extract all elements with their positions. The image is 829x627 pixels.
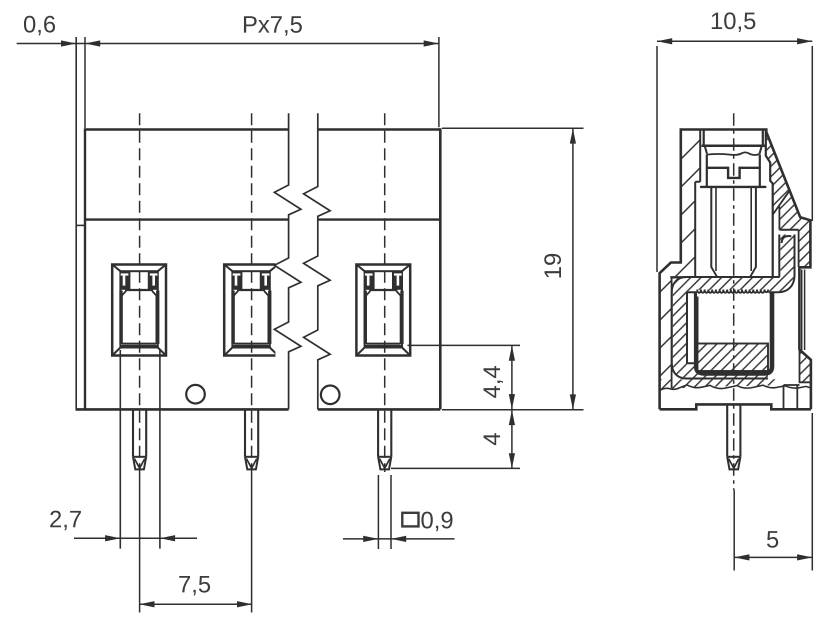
body bottom edge	[76, 408, 441, 411]
hatched left wall lower	[660, 263, 672, 390]
svg-text:4,4: 4,4	[479, 365, 506, 398]
center line terminal 1	[139, 113, 141, 470]
white pocket channel	[773, 206, 779, 230]
break line right	[304, 113, 331, 409]
interior wall lines	[695, 130, 700, 277]
pocket cap line	[779, 229, 798, 231]
ext 7,5 lines (pin centers)	[140, 470, 252, 613]
mounting hole circle 2	[321, 386, 340, 405]
side outer profile	[660, 128, 811, 409]
arrow 10,5 right	[797, 38, 812, 44]
screw slot line	[707, 167, 760, 169]
screw neck wavy line	[707, 152, 760, 155]
hatched snap barb	[800, 350, 812, 382]
screw head mid section	[707, 154, 760, 186]
hatched strip under clamp cage	[660, 379, 776, 390]
svg-text:4: 4	[479, 432, 506, 445]
arrow 4 bottom	[509, 453, 515, 468]
arrow 7,5 right	[237, 601, 252, 607]
dim 19 line	[572, 128, 574, 409]
arrow 5 left	[734, 554, 749, 560]
ext 19 top	[442, 127, 584, 129]
side view housing hatched left wall upper	[660, 113, 811, 490]
cavity right wall lines	[766, 130, 773, 293]
ext line x=85 top	[84, 37, 86, 128]
ext 0,9 lines	[378, 475, 391, 549]
body right edge	[439, 128, 442, 409]
hatched right wall wedge	[766, 130, 811, 267]
front view body outline	[76, 37, 441, 549]
dim 7,5 line	[139, 603, 252, 605]
arrow 0,6 left (tip x=76.2, points right)	[61, 40, 76, 46]
pocket walls	[779, 207, 798, 268]
wire cavity thick outline	[696, 292, 772, 374]
clamp foot hatched block	[698, 344, 769, 372]
dim 5 line	[734, 556, 812, 558]
terminal window 2	[224, 265, 278, 356]
side solder pin	[727, 405, 740, 469]
arrow 7,5 left	[139, 601, 154, 607]
arrow 0,9 left	[363, 536, 378, 542]
break line left	[274, 113, 301, 409]
body mid separation line	[85, 218, 440, 220]
solder pin 2	[245, 411, 258, 470]
strap tip rounded corner	[782, 236, 792, 243]
arrow 19 bottom	[570, 394, 576, 409]
arrow 5 right	[797, 554, 812, 560]
screw tip chamfer	[711, 267, 756, 277]
serration white base	[697, 290, 769, 297]
screw shaft	[711, 188, 756, 268]
arrow 4,4 top	[509, 346, 515, 361]
ext 10,5/5 right	[811, 46, 813, 571]
dim 0,6 and Px7,5 shared line	[17, 43, 439, 45]
arrow 4 top	[509, 410, 515, 425]
ext 10,5 left	[656, 46, 658, 272]
svg-text:5: 5	[766, 527, 779, 554]
svg-text:Px7,5: Px7,5	[242, 12, 303, 39]
arrow 19 top	[570, 128, 576, 143]
latch channel lines	[802, 270, 805, 351]
ext 5 left (pin center)	[733, 490, 735, 571]
break white-out region	[274, 112, 330, 411]
terminal window 3	[356, 265, 410, 356]
solder pin 1	[133, 411, 146, 470]
arrow 4,4 bottom	[509, 394, 515, 409]
left step tick	[76, 224, 85, 226]
svg-text:0,6: 0,6	[23, 11, 56, 38]
body top edge	[85, 128, 440, 131]
dim 10,5 line	[657, 40, 812, 42]
shelf line	[670, 276, 696, 278]
arrow 2,7 right	[160, 535, 175, 541]
ext 4,4 top	[408, 344, 521, 346]
ext 4 bottom (pin tip)	[391, 467, 520, 469]
terminal window 1	[112, 265, 166, 356]
center line terminal 2	[251, 113, 253, 470]
arrow Px7,5 right (tip x=438.9, points right)	[424, 40, 439, 46]
screw neck taper	[705, 147, 762, 154]
svg-text:7,5: 7,5	[178, 571, 211, 598]
square symbol for 0,9	[402, 513, 418, 527]
arrow 10,5 left	[657, 38, 672, 44]
ext 19/4,4 bottom	[442, 409, 584, 411]
side center line	[733, 113, 735, 490]
screw head bottom edge	[701, 186, 765, 188]
screwdriver slot	[728, 167, 740, 178]
center line terminal 3	[384, 113, 386, 472]
body left edge	[84, 128, 86, 409]
svg-text:19: 19	[540, 253, 567, 279]
arrow 0,6/Px7,5 shared (tip x=85, points left)	[85, 40, 100, 46]
screw head cap	[704, 130, 763, 146]
inner corner diagonal edge	[773, 190, 790, 214]
svg-text:10,5: 10,5	[710, 8, 756, 35]
dim 2,7 line	[74, 537, 197, 539]
mounting hole circle 1	[186, 385, 205, 404]
body outer-left thin edge	[75, 37, 77, 409]
arrow 2,7 left	[105, 535, 120, 541]
svg-text:2,7: 2,7	[49, 506, 82, 533]
dim 0,9 line	[343, 538, 455, 540]
ext line Px7,5 right	[438, 37, 440, 127]
serration teeth	[697, 290, 768, 293]
break-out wavy line	[660, 385, 811, 391]
clamp cage steel band	[679, 235, 787, 371]
arrow 0,9 right	[391, 536, 406, 542]
bottom right interior lines	[784, 385, 800, 409]
dim 4,4 / 4 line	[511, 346, 513, 469]
svg-text:0,9: 0,9	[420, 507, 453, 534]
solder pin 3	[378, 411, 391, 470]
wall inner edge below shelf	[671, 279, 673, 389]
clamp width reference lines under window 1	[119, 350, 121, 549]
